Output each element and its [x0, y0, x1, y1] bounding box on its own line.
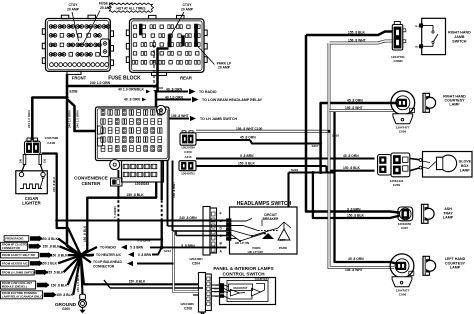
glove box connectors	[378, 153, 410, 187]
wire to radio branch	[81, 238, 227, 255]
svg-text:C204: C204	[192, 261, 200, 265]
dashed ctsy circuit through rear block	[153, 40, 155, 91]
wire 240 ORN down to cigar lighter	[27, 98, 67, 141]
label ground	[55, 302, 77, 311]
svg-text:C206: C206	[184, 150, 192, 154]
svg-text:COURTESY: COURTESY	[255, 277, 270, 281]
svg-text:C208: C208	[184, 306, 192, 310]
svg-text:CONVENIENCE: CONVENIENCE	[74, 176, 108, 181]
svg-text:TO LOW BEAM HEADLAMP RELAY: TO LOW BEAM HEADLAMP RELAY	[202, 98, 263, 102]
svg-text:FROM HEATER A/C: FROM HEATER A/C	[2, 261, 28, 265]
fuse block rear view outline	[126, 15, 207, 75]
RH courtesy lamp symbol	[423, 93, 436, 112]
wire 150 BLK connector to bus	[196, 161, 375, 170]
svg-text:SWITCH: SWITCH	[452, 39, 467, 43]
svg-text:12034081: 12034081	[189, 257, 203, 261]
wire 45 ORN connector to bus	[196, 136, 321, 144]
wire 240 ORN feed horizontal	[66, 74, 158, 88]
svg-text:S212: S212	[164, 249, 171, 253]
svg-text:BREAKER: BREAKER	[263, 217, 279, 221]
svg-text:20 AMP: 20 AMP	[181, 7, 194, 11]
wire 150 BLK cigar lighter to splice	[42, 154, 81, 256]
fuse CTSY installed (black bar)	[139, 24, 142, 35]
svg-text:20 AMP: 20 AMP	[67, 7, 80, 11]
label FUSE LP 20 AMP front	[83, 2, 114, 45]
panel screw boss bottom left	[110, 160, 120, 170]
wire 156 WHT gray bus vertical	[327, 43, 394, 268]
svg-text:45 .8 ORN: 45 .8 ORN	[348, 257, 364, 261]
svg-text:5 .8 BRN: 5 .8 BRN	[130, 246, 144, 250]
svg-text:LIGHTER: LIGHTER	[22, 201, 40, 206]
svg-text:9 .8 BRN: 9 .8 BRN	[240, 154, 254, 158]
label REAR	[180, 75, 192, 80]
wire 240 ORN branch to convenience center	[67, 99, 96, 131]
svg-text:9 .8 BRN: 9 .8 BRN	[347, 207, 361, 211]
svg-text:CENTER: CENTER	[82, 181, 102, 186]
ash tray connector	[398, 207, 413, 230]
svg-text:LAMP RELAY (CANADA ONLY): LAMP RELAY (CANADA ONLY)	[2, 295, 43, 299]
label left hand courtesy lamp	[445, 257, 466, 269]
svg-text:150 .8 BLK: 150 .8 BLK	[129, 280, 146, 284]
svg-text:FROM LH JAMB SWITCH: FROM LH JAMB SWITCH	[2, 270, 35, 274]
ground eyelet G200	[79, 294, 87, 313]
svg-text:TO I/P BULKHEAD: TO I/P BULKHEAD	[93, 260, 122, 264]
from arrow FROM HEATER A/C	[1, 255, 81, 266]
wire 156 WHT gray to splice S410	[196, 127, 330, 132]
label CTSY 20 AMP front	[67, 3, 80, 41]
wire 240 ORN long horizontal to headlamp connector	[57, 219, 216, 222]
svg-text:C24B: C24B	[47, 141, 56, 145]
svg-text:155 .8 BLK: 155 .8 BLK	[348, 31, 365, 35]
wire 5 BRN connector to glove box	[196, 154, 375, 159]
wire to ip bulkhead connector	[81, 255, 174, 268]
svg-text:40 1.0 ORN/BLK: 40 1.0 ORN/BLK	[118, 87, 144, 91]
svg-text:240 1.0 ORN: 240 1.0 ORN	[67, 110, 71, 128]
wire 40 ORN to low beam headlamp relay	[124, 95, 263, 102]
svg-text:40 .8 ORN: 40 .8 ORN	[124, 98, 141, 102]
svg-text:RHEOSTAT: RHEOSTAT	[234, 286, 248, 290]
svg-text:156 .8 WHT: 156 .8 WHT	[171, 114, 189, 118]
svg-text:12047698: 12047698	[44, 136, 58, 140]
svg-text:20 AMP: 20 AMP	[100, 6, 113, 10]
connector C248 cigar lighter	[20, 136, 59, 164]
svg-text:150 .8 BLK: 150 .8 BLK	[56, 293, 73, 297]
svg-text:240 1.0 ORN: 240 1.0 ORN	[75, 110, 79, 128]
headlamps switch internals	[227, 213, 292, 254]
svg-text:12045245: 12045245	[135, 182, 149, 186]
cigar lighter	[16, 165, 48, 206]
svg-text:5 .8 BRN: 5 .8 BRN	[137, 238, 151, 242]
svg-text:PARK: PARK	[279, 246, 288, 250]
LH courtesy lamp symbol	[423, 256, 436, 275]
svg-text:45 .8 ORN: 45 .8 ORN	[347, 99, 363, 103]
svg-text:FROM SAFETY BELT SW: FROM SAFETY BELT SW	[2, 253, 36, 257]
wires into headlamp switch connector	[168, 216, 227, 248]
LH courtesy lamp socket	[390, 254, 414, 297]
labels RH courtesy wires	[345, 99, 363, 111]
svg-text:150 .8 BLK: 150 .8 BLK	[51, 283, 68, 287]
svg-text:HEADLAMPS SWITCH: HEADLAMPS SWITCH	[237, 201, 292, 207]
RH courtesy lamp socket	[391, 91, 415, 133]
wire 5 BRN from inline connector down	[113, 186, 162, 242]
svg-text:HD LP ON: HD LP ON	[235, 241, 249, 245]
wires into panel interior connector	[81, 232, 203, 295]
wire 40 ORN to radio	[156, 87, 217, 94]
svg-text:150 .8 WHT: 150 .8 WHT	[345, 106, 363, 110]
wire 155 BLK bus vertical	[305, 35, 400, 213]
from arrow FROM RADIO	[4, 236, 81, 256]
svg-text:S410: S410	[332, 134, 339, 138]
svg-text:240 1.0 ORN: 240 1.0 ORN	[90, 81, 111, 85]
svg-text:40 .8 ORN: 40 .8 ORN	[166, 87, 183, 91]
svg-text:150: 150	[44, 158, 47, 163]
headlamp switch connector C204	[189, 207, 222, 266]
svg-text:OFF: OFF	[280, 238, 286, 242]
svg-text:45 .8 ORN: 45 .8 ORN	[343, 154, 359, 158]
connector C207	[179, 155, 196, 176]
label convenience center	[74, 176, 108, 187]
fuse bar right top	[195, 24, 198, 35]
svg-text:150 .8 BLK: 150 .8 BLK	[41, 237, 58, 241]
svg-text:TO LH JAMB SWITCH: TO LH JAMB SWITCH	[200, 117, 237, 121]
connector C206	[180, 131, 196, 154]
svg-text:5 .8 BRN: 5 .8 BRN	[138, 253, 152, 257]
svg-text:12040751: 12040751	[181, 172, 195, 176]
svg-text:156 .8 WHT: 156 .8 WHT	[172, 182, 176, 198]
wires panel bottom to headlamp switch connector	[161, 161, 163, 248]
panel connector cavities	[98, 110, 163, 186]
svg-text:LAMP: LAMP	[449, 103, 460, 107]
svg-text:LAMP: LAMP	[460, 168, 471, 172]
wires down from panel right side	[168, 161, 176, 232]
svg-text:150 .8 BLK: 150 .8 BLK	[126, 193, 144, 197]
wire 45 ORN bus vertical	[312, 103, 398, 174]
svg-text:S240: S240	[157, 86, 164, 90]
svg-text:156 .8 WHT: 156 .8 WHT	[348, 39, 366, 43]
labels ash tray wires	[347, 207, 364, 217]
svg-text:G200: G200	[62, 307, 70, 311]
svg-text:150 .8 BLK: 150 .8 BLK	[43, 245, 60, 249]
svg-text:150 .8 BLK: 150 .8 BLK	[51, 253, 68, 257]
svg-text:C007: C007	[401, 226, 409, 230]
svg-text:CONN: CONN	[393, 59, 403, 63]
node S240	[154, 86, 163, 107]
svg-text:HOT AT ALL TIMES: HOT AT ALL TIMES	[116, 6, 145, 10]
label CTSY 20 AMP rear	[171, 3, 194, 36]
wire 150 BLK from convenience center to splice	[81, 182, 156, 255]
svg-text:150 .8 BLK: 150 .8 BLK	[347, 214, 364, 218]
svg-text:C006: C006	[399, 129, 407, 133]
svg-text:CONNECTOR: CONNECTOR	[2, 246, 20, 250]
inline connector below panel	[111, 170, 123, 186]
svg-text:TO RADIO: TO RADIO	[199, 90, 217, 94]
svg-text:E20B: E20B	[70, 90, 79, 94]
svg-text:C006: C006	[399, 292, 407, 296]
from arrow FROM SAFETY BELT SW	[1, 252, 81, 258]
svg-text:JAMB: JAMB	[454, 35, 465, 39]
svg-text:FUSE BLOCK: FUSE BLOCK	[108, 76, 141, 82]
svg-text:S207: S207	[312, 144, 319, 148]
svg-text:5 .8 BRN: 5 .8 BRN	[113, 206, 117, 218]
wire to heater ac branch	[81, 247, 172, 257]
svg-text:FRONT: FRONT	[72, 75, 87, 80]
svg-text:12034080: 12034080	[180, 302, 194, 306]
ash tray lamp symbol	[422, 204, 435, 223]
svg-text:40 1.0 ORN: 40 1.0 ORN	[165, 95, 183, 99]
glove box lamp	[410, 152, 472, 178]
svg-text:240 .8 ORN: 240 .8 ORN	[179, 216, 197, 220]
from arrow FROM DAYTIME RUNNING	[1, 255, 81, 299]
splice S207 star	[78, 253, 94, 258]
fuse PARK LP installed (black bar)	[168, 35, 171, 48]
svg-text:156 .8 WHT: 156 .8 WHT	[345, 268, 363, 272]
label right hand courtesy lamp	[443, 94, 466, 106]
svg-text:LAMP: LAMP	[443, 216, 454, 220]
wire 155 BLK to RH jamb switch	[306, 31, 392, 35]
fuse block front cavities	[49, 25, 110, 67]
wire 150 BLK to ground	[76, 255, 82, 294]
label FRONT	[72, 75, 87, 80]
label 40 ORN BLK to node	[118, 87, 150, 93]
svg-text:45 .8 ORN: 45 .8 ORN	[240, 136, 256, 140]
labels LH courtesy wires	[345, 257, 364, 272]
label FUSE BLOCK	[108, 76, 141, 82]
svg-text:RIGHT HAND: RIGHT HAND	[448, 30, 471, 34]
wire 45 ORN LH courtesy vertical	[335, 111, 397, 264]
svg-text:F: F	[220, 212, 222, 216]
svg-text:REAR: REAR	[180, 75, 192, 80]
wire park lp feed from rear block	[158, 49, 169, 87]
svg-text:150 2 BLK: 150 2 BLK	[41, 262, 58, 266]
wire 150 BLK ash tray vertical	[311, 171, 399, 218]
svg-text:240 1.0 ORN: 240 1.0 ORN	[27, 110, 31, 128]
panel interior switch internals	[212, 277, 270, 301]
from arrow FROM I/P CLUSTER	[1, 242, 81, 255]
svg-text:S248: S248	[291, 168, 298, 172]
fuse block front view outline	[42, 15, 113, 74]
label PARK LP 20 AMP rear	[198, 46, 233, 70]
hot at all times bubble	[108, 3, 154, 12]
convenience center panel outline	[96, 107, 170, 182]
svg-text:150 1.0 BLK: 150 1.0 BLK	[76, 274, 80, 292]
svg-text:20 AMP: 20 AMP	[218, 66, 231, 70]
svg-text:TO HEATER A/C: TO HEATER A/C	[96, 253, 122, 257]
svg-text:TO RADIO: TO RADIO	[100, 246, 116, 250]
svg-text:BOX: BOX	[461, 164, 469, 168]
from arrow FROM LOW COOLANT	[1, 255, 81, 289]
svg-text:LAMP: LAMP	[450, 266, 461, 270]
svg-text:150 .8 BLK: 150 .8 BLK	[343, 166, 360, 170]
svg-text:CONTROL SWITCH: CONTROL SWITCH	[222, 271, 265, 276]
svg-text:FROM RADIO: FROM RADIO	[5, 237, 24, 241]
svg-text:A216: A216	[185, 155, 192, 159]
svg-text:155 .5 BLK: 155 .5 BLK	[47, 271, 64, 275]
headlamps switch box	[230, 201, 298, 254]
svg-text:240: 240	[20, 158, 23, 163]
svg-text:HD LP OFF: HD LP OFF	[248, 250, 264, 254]
panel and interior lamps control switch box	[213, 266, 275, 304]
fuse bar right mid	[195, 34, 198, 47]
svg-text:150 .8 BLK: 150 .8 BLK	[52, 176, 56, 192]
fuse block rear cavities	[132, 25, 200, 64]
panel screw boss top right	[156, 105, 165, 114]
svg-text:150 .8 BLK: 150 .8 BLK	[83, 225, 87, 242]
wire 156 WHT panel to LH jamb switch	[169, 114, 237, 121]
svg-text:C230: C230	[393, 183, 401, 187]
splice crossbar wire	[289, 168, 335, 207]
connector 12047781	[391, 22, 406, 64]
panel interior connector C208	[180, 273, 211, 314]
right hand jamb switch	[415, 18, 471, 54]
svg-text:GLOVE: GLOVE	[459, 159, 472, 163]
svg-text:MODULE (DIESEL): MODULE (DIESEL)	[2, 285, 27, 289]
wire 156 WHT to RH jamb switch	[330, 39, 393, 43]
wire 150 BLK left vertical to splice	[66, 86, 81, 255]
label ash tray lamp	[443, 207, 454, 219]
svg-text:156 .8 WHT C100: 156 .8 WHT C100	[236, 127, 263, 131]
from arrow FROM LH JAMB SWITCH	[1, 255, 81, 275]
svg-text:150 .8 BLK: 150 .8 BLK	[238, 161, 255, 165]
fuse bar mid	[182, 36, 185, 47]
svg-text:CONNECTOR: CONNECTOR	[93, 264, 115, 268]
